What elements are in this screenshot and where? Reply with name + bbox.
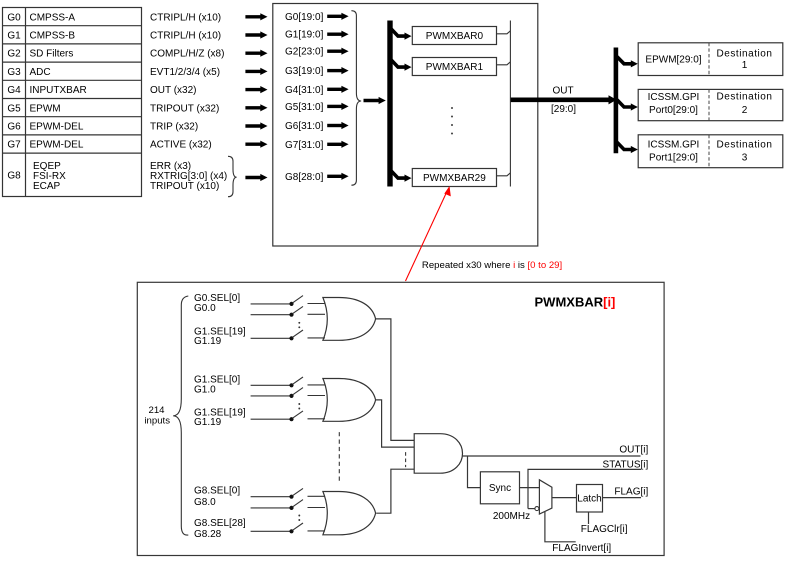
ellipsis inputs <box>298 403 300 405</box>
wire stub into gate <box>308 530 326 532</box>
svg-text:EVT1/2/3/4 (x5): EVT1/2/3/4 (x5) <box>150 67 220 78</box>
svg-text:G2: G2 <box>7 49 21 60</box>
svg-text:[29:0]: [29:0] <box>551 104 576 115</box>
wire FLAGClr <box>588 512 590 524</box>
svg-text:CMPSS-B: CMPSS-B <box>30 31 76 42</box>
svg-text:CMPSS-A: CMPSS-A <box>30 12 76 23</box>
wire FLAG[i] <box>603 497 642 499</box>
mux FLAGInvert <box>539 480 552 514</box>
wire OR3 to AND <box>376 469 414 513</box>
arrow G0 input <box>245 15 261 18</box>
arrow G0[19:0] <box>327 15 342 18</box>
svg-text:EPWM-DEL: EPWM-DEL <box>30 140 84 151</box>
wire PWMXBAR0 output <box>497 31 511 34</box>
arrow G2[23:0] <box>327 50 342 53</box>
arrow G6 input <box>245 124 261 127</box>
svg-text:Latch: Latch <box>577 494 601 505</box>
svg-text:Sync: Sync <box>489 483 511 494</box>
arrow G1[19:0] <box>327 33 342 36</box>
arrow G5 input <box>245 106 261 109</box>
svg-text:STATUS[i]: STATUS[i] <box>603 459 649 470</box>
block PWMXBAR29 <box>412 169 496 187</box>
block Latch <box>577 485 603 513</box>
svg-text:TRIP (x32): TRIP (x32) <box>150 122 198 133</box>
svg-text:G8[28:0]: G8[28:0] <box>285 172 324 183</box>
wire input with select switch <box>251 395 292 397</box>
wire stub into gate <box>308 418 326 420</box>
ellipsis OR gates <box>338 432 340 481</box>
svg-text:OUT[i]: OUT[i] <box>619 445 648 456</box>
svg-text:TRIPOUT (x10): TRIPOUT (x10) <box>150 181 219 192</box>
wire stub into gate <box>308 395 326 397</box>
svg-text:G1.19: G1.19 <box>194 417 222 428</box>
brace 214 inputs <box>173 296 188 535</box>
bent arrow destination 1 <box>617 57 632 64</box>
wire OUT bus <box>511 98 610 103</box>
svg-text:Port0[29:0]: Port0[29:0] <box>649 105 698 116</box>
wire input with select switch <box>251 530 292 532</box>
svg-text:G4[31:0]: G4[31:0] <box>285 85 324 96</box>
svg-text:PWMXBAR1: PWMXBAR1 <box>426 62 484 73</box>
arrow G8 input <box>245 176 261 179</box>
svg-text:Port1[29:0]: Port1[29:0] <box>649 152 698 163</box>
svg-text:G5: G5 <box>7 103 21 114</box>
svg-text:COMPL/H/Z (x8): COMPL/H/Z (x8) <box>150 49 224 60</box>
brace all groups <box>351 11 361 186</box>
svg-text:EPWM[29:0]: EPWM[29:0] <box>645 54 701 65</box>
wire STATUS branch <box>528 469 641 508</box>
svg-text:G1: G1 <box>7 31 21 42</box>
svg-text:214: 214 <box>148 405 165 416</box>
svg-text:1: 1 <box>742 60 748 71</box>
svg-text:INPUTXBAR: INPUTXBAR <box>30 85 87 96</box>
svg-text:G3[19:0]: G3[19:0] <box>285 66 324 77</box>
ellipsis inputs <box>298 515 300 517</box>
wire mux to Latch <box>552 497 577 499</box>
AND gate <box>414 434 462 474</box>
arrow G8[28:0] <box>327 175 342 178</box>
wire input with select switch <box>251 314 292 316</box>
svg-text:ADC: ADC <box>30 67 51 78</box>
wire OUT[i] <box>463 455 641 457</box>
svg-text:G4: G4 <box>7 85 21 96</box>
svg-text:G8: G8 <box>7 171 21 182</box>
inverter bubble <box>535 507 539 511</box>
svg-text:ACTIVE (x32): ACTIVE (x32) <box>150 140 212 151</box>
svg-text:FLAG[i]: FLAG[i] <box>614 486 648 497</box>
block Sync <box>480 472 519 504</box>
arrow G7 input <box>245 142 261 145</box>
crossbar output collector line <box>509 21 511 187</box>
svg-text:SD Filters: SD Filters <box>30 49 74 60</box>
svg-text:ICSSM.GPI: ICSSM.GPI <box>648 92 700 103</box>
svg-text:3: 3 <box>742 153 748 164</box>
arrow G4[31:0] <box>327 88 342 91</box>
svg-text:G3: G3 <box>7 67 21 78</box>
svg-text:G6[31:0]: G6[31:0] <box>285 121 324 132</box>
svg-text:Destination: Destination <box>716 92 772 103</box>
bent arrow destination 3 <box>617 142 632 149</box>
svg-text:EPWM: EPWM <box>30 103 61 114</box>
destination box 1 <box>638 43 783 76</box>
bent arrow into PWMXBAR29 <box>391 171 406 178</box>
bent arrow into PWMXBAR0 <box>391 29 406 36</box>
wire stub into gate <box>308 313 326 315</box>
wire stub into gate <box>308 337 326 339</box>
wire PWMXBAR1 output <box>497 62 511 65</box>
svg-text:FLAGClr[i]: FLAGClr[i] <box>581 524 628 535</box>
svg-text:EPWM-DEL: EPWM-DEL <box>30 122 84 133</box>
wire input with select switch <box>251 303 292 305</box>
arrow into crossbar bus <box>364 99 380 102</box>
arrow G2 input <box>245 52 261 55</box>
svg-text:FLAGInvert[i]: FLAGInvert[i] <box>552 543 611 554</box>
svg-text:PWMXBAR[i]: PWMXBAR[i] <box>535 295 616 310</box>
svg-text:OUT: OUT <box>552 85 573 96</box>
OR gate group 0 <box>323 298 376 341</box>
svg-text:CTRIPL/H (x10): CTRIPL/H (x10) <box>150 12 221 23</box>
wire input with select switch <box>251 496 292 498</box>
arrow G1 input <box>245 33 261 36</box>
wire FLAGInvert <box>545 512 576 542</box>
wire stub into gate <box>308 303 326 305</box>
wire PWMXBAR29 output <box>497 173 511 176</box>
PWMXBAR[i] detail box <box>137 282 664 555</box>
svg-text:G1.0: G1.0 <box>194 384 216 395</box>
bent arrow destination 2 <box>617 100 632 107</box>
wire input with select switch <box>251 384 292 386</box>
svg-text:OUT (x32): OUT (x32) <box>150 85 197 96</box>
svg-text:G0.0: G0.0 <box>194 303 216 314</box>
arrow G4 input <box>245 88 261 91</box>
destination box 2 <box>638 89 783 120</box>
wire to Sync <box>468 456 481 488</box>
wire input with select switch <box>251 507 292 509</box>
svg-text:2: 2 <box>742 105 748 116</box>
svg-text:CTRIPL/H (x10): CTRIPL/H (x10) <box>150 31 221 42</box>
arrow G3 input <box>245 70 261 73</box>
svg-text:G8.0: G8.0 <box>194 497 216 508</box>
svg-text:TRIPOUT (x32): TRIPOUT (x32) <box>150 103 219 114</box>
bent arrow into PWMXBAR1 <box>391 60 406 67</box>
svg-text:PWMXBAR0: PWMXBAR0 <box>426 31 484 42</box>
svg-text:G7: G7 <box>7 140 21 151</box>
ellipsis PWMXBAR instances <box>451 107 453 109</box>
source group table <box>3 8 142 197</box>
destination box 3 <box>638 135 783 168</box>
wire input with select switch <box>251 418 292 420</box>
wire Sync to mux <box>520 487 540 489</box>
svg-text:Repeated x30 where i is [0 to: Repeated x30 where i is [0 to 29] <box>422 260 562 271</box>
wire stub into gate <box>308 507 326 509</box>
svg-text:G1[19:0]: G1[19:0] <box>285 30 324 41</box>
wire stub into gate <box>308 495 326 497</box>
svg-text:Destination: Destination <box>716 140 772 151</box>
crossbar input bus <box>387 21 392 187</box>
svg-text:G1.19: G1.19 <box>194 336 222 347</box>
svg-text:PWMXBAR29: PWMXBAR29 <box>423 173 486 184</box>
destination fanout bus <box>614 48 619 154</box>
svg-text:G8.SEL[0]: G8.SEL[0] <box>194 486 240 497</box>
svg-text:G0: G0 <box>7 12 21 23</box>
svg-text:ECAP: ECAP <box>33 181 61 192</box>
ellipsis inputs <box>298 322 300 324</box>
arrow G7[31:0] <box>327 143 342 146</box>
svg-text:G7[31:0]: G7[31:0] <box>285 140 324 151</box>
svg-text:G6: G6 <box>7 122 21 133</box>
svg-text:Destination: Destination <box>716 49 772 60</box>
svg-text:ICSSM.GPI: ICSSM.GPI <box>648 140 700 151</box>
arrow G5[31:0] <box>327 105 342 108</box>
wire OR2 to AND <box>376 400 415 447</box>
brace G8 signals <box>228 156 237 196</box>
svg-text:G5[31:0]: G5[31:0] <box>285 102 324 113</box>
wire stub into gate <box>308 384 326 386</box>
PWM XBAR top-level box <box>273 4 538 247</box>
block PWMXBAR0 <box>412 27 496 45</box>
svg-text:G0[19:0]: G0[19:0] <box>285 12 324 23</box>
ellipsis AND inputs <box>405 452 407 467</box>
svg-text:G2[23:0]: G2[23:0] <box>285 47 324 58</box>
OR gate group 2 <box>323 492 376 535</box>
wire input with select switch <box>251 337 292 339</box>
arrow G6[31:0] <box>327 124 342 127</box>
red callout arrow <box>406 190 448 281</box>
svg-text:inputs: inputs <box>144 416 170 427</box>
wire OR1 to AND <box>376 319 415 441</box>
arrow G3[19:0] <box>327 69 342 72</box>
block PWMXBAR1 <box>412 58 496 76</box>
svg-text:G8.SEL[28]: G8.SEL[28] <box>194 518 246 529</box>
svg-text:200MHz: 200MHz <box>493 511 530 522</box>
OR gate group 1 <box>323 379 376 422</box>
svg-text:G8.28: G8.28 <box>194 529 222 540</box>
